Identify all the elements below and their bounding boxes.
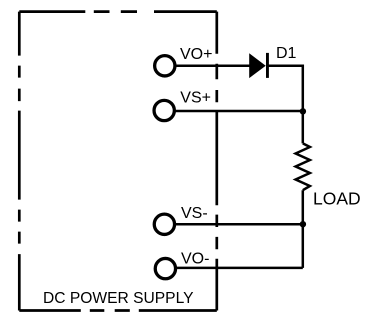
junction dot at VS- / bus <box>300 221 306 227</box>
diode D1 cathode bar <box>266 53 269 78</box>
svg-text:VO+: VO+ <box>180 46 212 63</box>
diode D1 triangle (anode) <box>250 54 265 77</box>
wire: VS- terminal to bus <box>175 223 303 226</box>
wire: VO- terminal to bus bottom corner <box>177 267 303 270</box>
svg-text:DC POWER SUPPLY: DC POWER SUPPLY <box>43 290 194 307</box>
terminal circle VS- <box>154 214 174 234</box>
resistor LOAD zigzag <box>296 143 310 190</box>
terminal circle VO- <box>155 258 175 278</box>
DC power supply dashed enclosure: bottom edge <box>19 309 217 312</box>
terminal circle VS+ <box>154 100 174 120</box>
terminal circle VO+ <box>155 56 175 76</box>
junction dot at VS+ / bus <box>300 108 306 114</box>
svg-text:VS-: VS- <box>181 205 208 222</box>
wire: VS+ terminal to bus <box>175 110 303 113</box>
wire: bus below resistor (through VS- junction to VO- corner) <box>302 190 305 268</box>
DC power supply dashed enclosure: right edge <box>215 12 218 311</box>
svg-text:D1: D1 <box>276 45 297 62</box>
DC power supply dashed enclosure: top edge <box>19 10 217 13</box>
wire: VO+ terminal to diode anode <box>176 64 251 67</box>
svg-text:VS+: VS+ <box>180 90 211 107</box>
wire: diode cathode to right bus corner, then down <box>267 66 303 144</box>
DC power supply dashed enclosure: left edge <box>18 12 21 311</box>
svg-text:VO-: VO- <box>181 250 209 267</box>
svg-text:LOAD: LOAD <box>313 188 361 208</box>
